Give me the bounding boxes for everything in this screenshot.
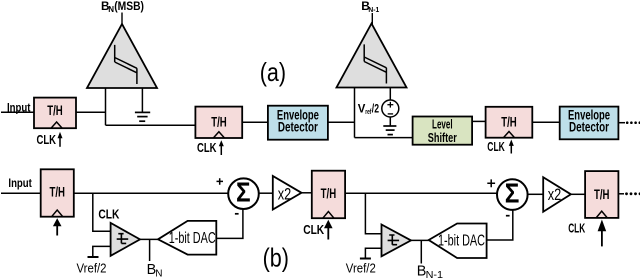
clock arrow for T/H b3: [598, 220, 607, 247]
label BN-1 (row a): [361, 0, 380, 14]
wire source to ground: [389, 117, 391, 126]
svg-text:Vref/2: Vref/2: [346, 260, 376, 275]
wire node down to comparator U4: [365, 193, 381, 234]
envelope detector 1: [268, 106, 328, 140]
wire U2 minus input down to level shifter bus: [354, 88, 356, 138]
wire S1 to amplifier x2 (1): [259, 192, 273, 194]
svg-text:x2: x2: [548, 185, 562, 204]
minus sign at S1: [235, 213, 239, 215]
svg-text:T/H: T/H: [47, 103, 63, 118]
svg-text:(b): (b): [263, 243, 289, 273]
wire T/H1 output: [76, 111, 106, 113]
svg-text:T/H: T/H: [49, 185, 65, 200]
continuation dots (row a): [626, 121, 640, 124]
1-bit DAC 1 (pentagon): [158, 221, 216, 255]
wire node to BN label: [149, 239, 151, 261]
svg-text:CLK: CLK: [487, 139, 505, 154]
svg-text:CLK: CLK: [98, 206, 119, 221]
common bar under U4: [360, 258, 371, 260]
wire node to BN-1 label: [420, 240, 422, 263]
T/H block 1 (row a): [34, 98, 76, 129]
wire node down to comparator U3: [93, 193, 111, 231]
label Vref/2 (row a): [358, 102, 379, 116]
wire T/H b1 output to summer S1: [74, 192, 228, 194]
comparator U3 (right-pointing): [111, 223, 140, 256]
svg-text:Detector: Detector: [569, 120, 610, 135]
wire T/H b2 output to summer S2: [345, 192, 497, 194]
amplifier x2 (1): [273, 176, 302, 210]
T/H block 3 (row a): [486, 107, 533, 138]
plus sign at S2: [487, 179, 495, 187]
wire bus to level shifter: [355, 137, 413, 139]
svg-text:T/H: T/H: [211, 115, 227, 130]
svg-text:ref: ref: [365, 107, 372, 116]
svg-text:/2: /2: [372, 102, 379, 116]
hysteresis symbol inside U1: [115, 45, 137, 84]
summer S1: [228, 177, 259, 209]
svg-text:Detector: Detector: [278, 119, 319, 134]
wire input to T/H1: [1, 111, 34, 113]
clock arrow for T/H2: [219, 140, 224, 155]
clock arrow for T/H b2: [324, 220, 333, 240]
svg-text:(a): (a): [260, 57, 286, 87]
envelope detector 2: [560, 107, 619, 140]
wire envelope detector 1 to node: [328, 121, 355, 123]
svg-text:1-bit DAC: 1-bit DAC: [438, 233, 485, 250]
svg-text:Σ: Σ: [505, 178, 520, 209]
wire DAC2 to summer S2 minus: [487, 210, 513, 240]
wire lower bus to T/H2: [106, 124, 196, 126]
amplifier x2 (2): [543, 177, 571, 212]
svg-text:N: N: [155, 268, 162, 278]
svg-text:CLK: CLK: [568, 220, 585, 235]
wire U1 minus input / node down to lower bus: [105, 88, 107, 125]
svg-text:Vref/2: Vref/2: [77, 260, 107, 275]
svg-text:N-1: N-1: [426, 270, 444, 278]
common bar under U3: [88, 256, 99, 258]
wire from BN label to comparator U1 apex: [121, 13, 123, 27]
comparator U2 (upward triangle): [337, 24, 407, 88]
wire DAC1 to summer S1 minus: [216, 209, 243, 238]
clock arrow for T/H b1: [53, 218, 62, 235]
svg-text:T/H: T/H: [321, 186, 337, 201]
wire S2 to amplifier x2 (2): [528, 193, 544, 195]
svg-text:N-1: N-1: [368, 5, 379, 14]
comparator U1 (MSB comparator, upward triangle): [87, 24, 157, 88]
level shifter block: [413, 117, 473, 146]
svg-text:(MSB): (MSB): [114, 0, 144, 13]
wire from BN-1 label to comparator U2 apex: [371, 13, 373, 26]
svg-text:CLK: CLK: [197, 140, 217, 155]
wire U4 output to DAC2: [411, 239, 429, 241]
label BN-1 (row b): [417, 264, 444, 278]
wire U3 lower input to common: [93, 246, 111, 256]
wire U1 plus input to ground: [141, 88, 143, 112]
T/H block b1: [41, 169, 74, 216]
svg-text:x2: x2: [278, 185, 292, 204]
hysteresis symbol inside U2: [364, 44, 386, 83]
svg-text:Input: Input: [8, 176, 32, 190]
wire envelope detector 2 output: [618, 122, 625, 124]
minus sign at S2: [506, 215, 510, 217]
svg-text:CLK: CLK: [37, 132, 57, 147]
wire T/H2 to envelope detector 1: [242, 121, 268, 123]
svg-text:1-bit DAC: 1-bit DAC: [169, 230, 216, 247]
plus sign at S1: [217, 178, 224, 185]
wire x2 (2) to T/H b3: [571, 193, 585, 195]
svg-text:Σ: Σ: [236, 177, 251, 208]
continuation dots (row b): [625, 192, 640, 195]
T/H block b3: [585, 171, 618, 218]
svg-text:CLK: CLK: [303, 222, 324, 237]
summer S2: [497, 178, 528, 210]
T/H block 2 (row a): [195, 107, 242, 138]
clock arrow for T/H1: [58, 132, 63, 147]
ground under U1: [135, 112, 150, 121]
svg-text:T/H: T/H: [594, 187, 610, 202]
wire U4 lower input to common: [365, 248, 381, 258]
wire x2 (1) to T/H b2: [302, 192, 312, 194]
ground under Vref/2 source: [383, 126, 396, 135]
voltage source Vref/2 (circle with + -): [382, 100, 399, 117]
wire T/H b3 output: [618, 193, 624, 195]
hysteresis symbol inside U3: [117, 234, 129, 244]
hysteresis symbol inside U4: [388, 235, 400, 245]
wire U3 output to DAC1: [140, 238, 158, 240]
wire U2 plus input to Vref/2 source: [389, 88, 391, 101]
label BN (MSB): [101, 0, 144, 14]
1-bit DAC 2 (pentagon): [429, 224, 487, 259]
svg-text:T/H: T/H: [501, 115, 517, 130]
wire T/H3 to envelope detector 2: [532, 121, 559, 123]
T/H block b2: [312, 171, 345, 219]
wire input to T/H b1: [1, 192, 41, 194]
label BN (row b): [147, 262, 163, 278]
comparator U4 (right-pointing): [382, 225, 412, 257]
svg-text:Shifter: Shifter: [428, 130, 457, 145]
wire level shifter to T/H3: [472, 120, 486, 122]
clock arrow for T/H3: [509, 140, 514, 154]
